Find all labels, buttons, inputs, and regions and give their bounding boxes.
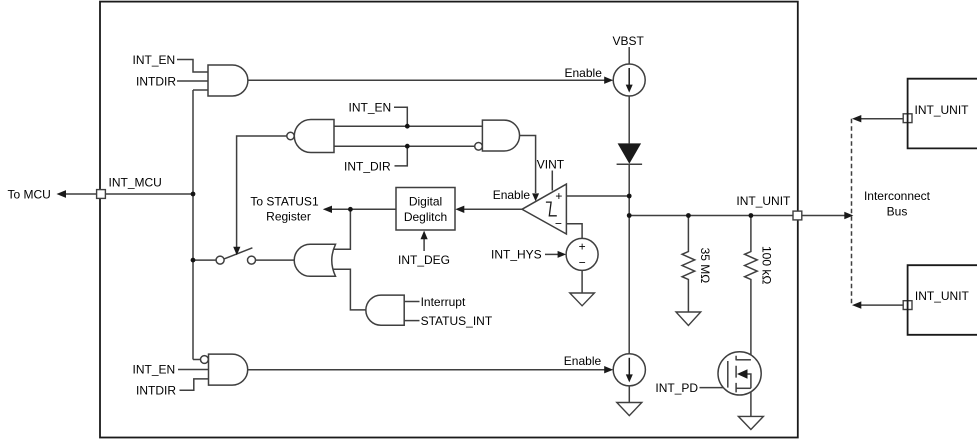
svg-text:−: − <box>579 256 586 270</box>
svg-text:Deglitch: Deglitch <box>404 210 447 224</box>
svg-text:INTDIR: INTDIR <box>136 384 176 398</box>
svg-text:To STATUS1: To STATUS1 <box>250 195 319 209</box>
svg-text:Enable: Enable <box>493 188 531 202</box>
svg-text:+: + <box>579 240 586 254</box>
svg-text:INT_MCU: INT_MCU <box>109 176 162 190</box>
svg-text:INT_EN: INT_EN <box>349 101 392 115</box>
svg-text:Interconnect: Interconnect <box>864 189 931 203</box>
svg-text:Interrupt: Interrupt <box>421 295 466 309</box>
svg-text:To MCU: To MCU <box>8 188 51 202</box>
svg-text:INTDIR: INTDIR <box>136 74 176 88</box>
svg-text:INT_UNIT: INT_UNIT <box>915 103 970 117</box>
svg-text:INT_UNIT: INT_UNIT <box>915 289 970 303</box>
svg-text:INT_PD: INT_PD <box>655 381 698 395</box>
svg-text:Bus: Bus <box>887 205 908 219</box>
svg-text:+: + <box>555 189 562 203</box>
svg-text:−: − <box>555 217 562 231</box>
svg-text:STATUS_INT: STATUS_INT <box>421 314 493 328</box>
svg-text:INT_DEG: INT_DEG <box>398 253 450 267</box>
svg-text:Enable: Enable <box>565 66 603 80</box>
svg-text:VBST: VBST <box>613 34 645 48</box>
svg-text:Digital: Digital <box>409 195 442 209</box>
svg-text:INT_EN: INT_EN <box>133 363 176 377</box>
svg-text:Enable: Enable <box>564 354 602 368</box>
svg-text:Register: Register <box>266 210 311 224</box>
svg-text:INT_UNIT: INT_UNIT <box>736 194 791 208</box>
svg-text:VINT: VINT <box>537 158 565 172</box>
svg-text:INT_HYS: INT_HYS <box>491 248 542 262</box>
svg-text:100 kΩ: 100 kΩ <box>760 246 774 284</box>
svg-text:35 MΩ: 35 MΩ <box>698 248 712 284</box>
svg-text:INT_DIR: INT_DIR <box>344 159 391 173</box>
svg-text:INT_EN: INT_EN <box>133 53 176 67</box>
